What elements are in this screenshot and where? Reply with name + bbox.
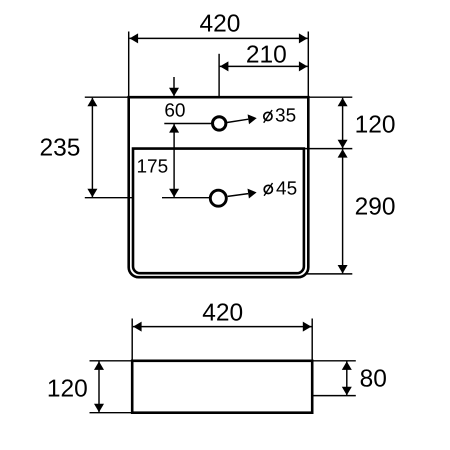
svg-text:45: 45 (276, 178, 297, 199)
svg-text:60: 60 (164, 101, 185, 122)
svg-text:235: 235 (40, 135, 81, 162)
svg-text:210: 210 (246, 42, 287, 69)
svg-text:420: 420 (200, 11, 241, 38)
svg-text:120: 120 (47, 375, 88, 402)
svg-text:420: 420 (202, 299, 243, 326)
svg-text:35: 35 (275, 105, 296, 126)
svg-text:120: 120 (355, 111, 396, 138)
svg-text:80: 80 (360, 365, 387, 392)
svg-text:175: 175 (136, 157, 168, 178)
svg-text:290: 290 (355, 194, 396, 221)
